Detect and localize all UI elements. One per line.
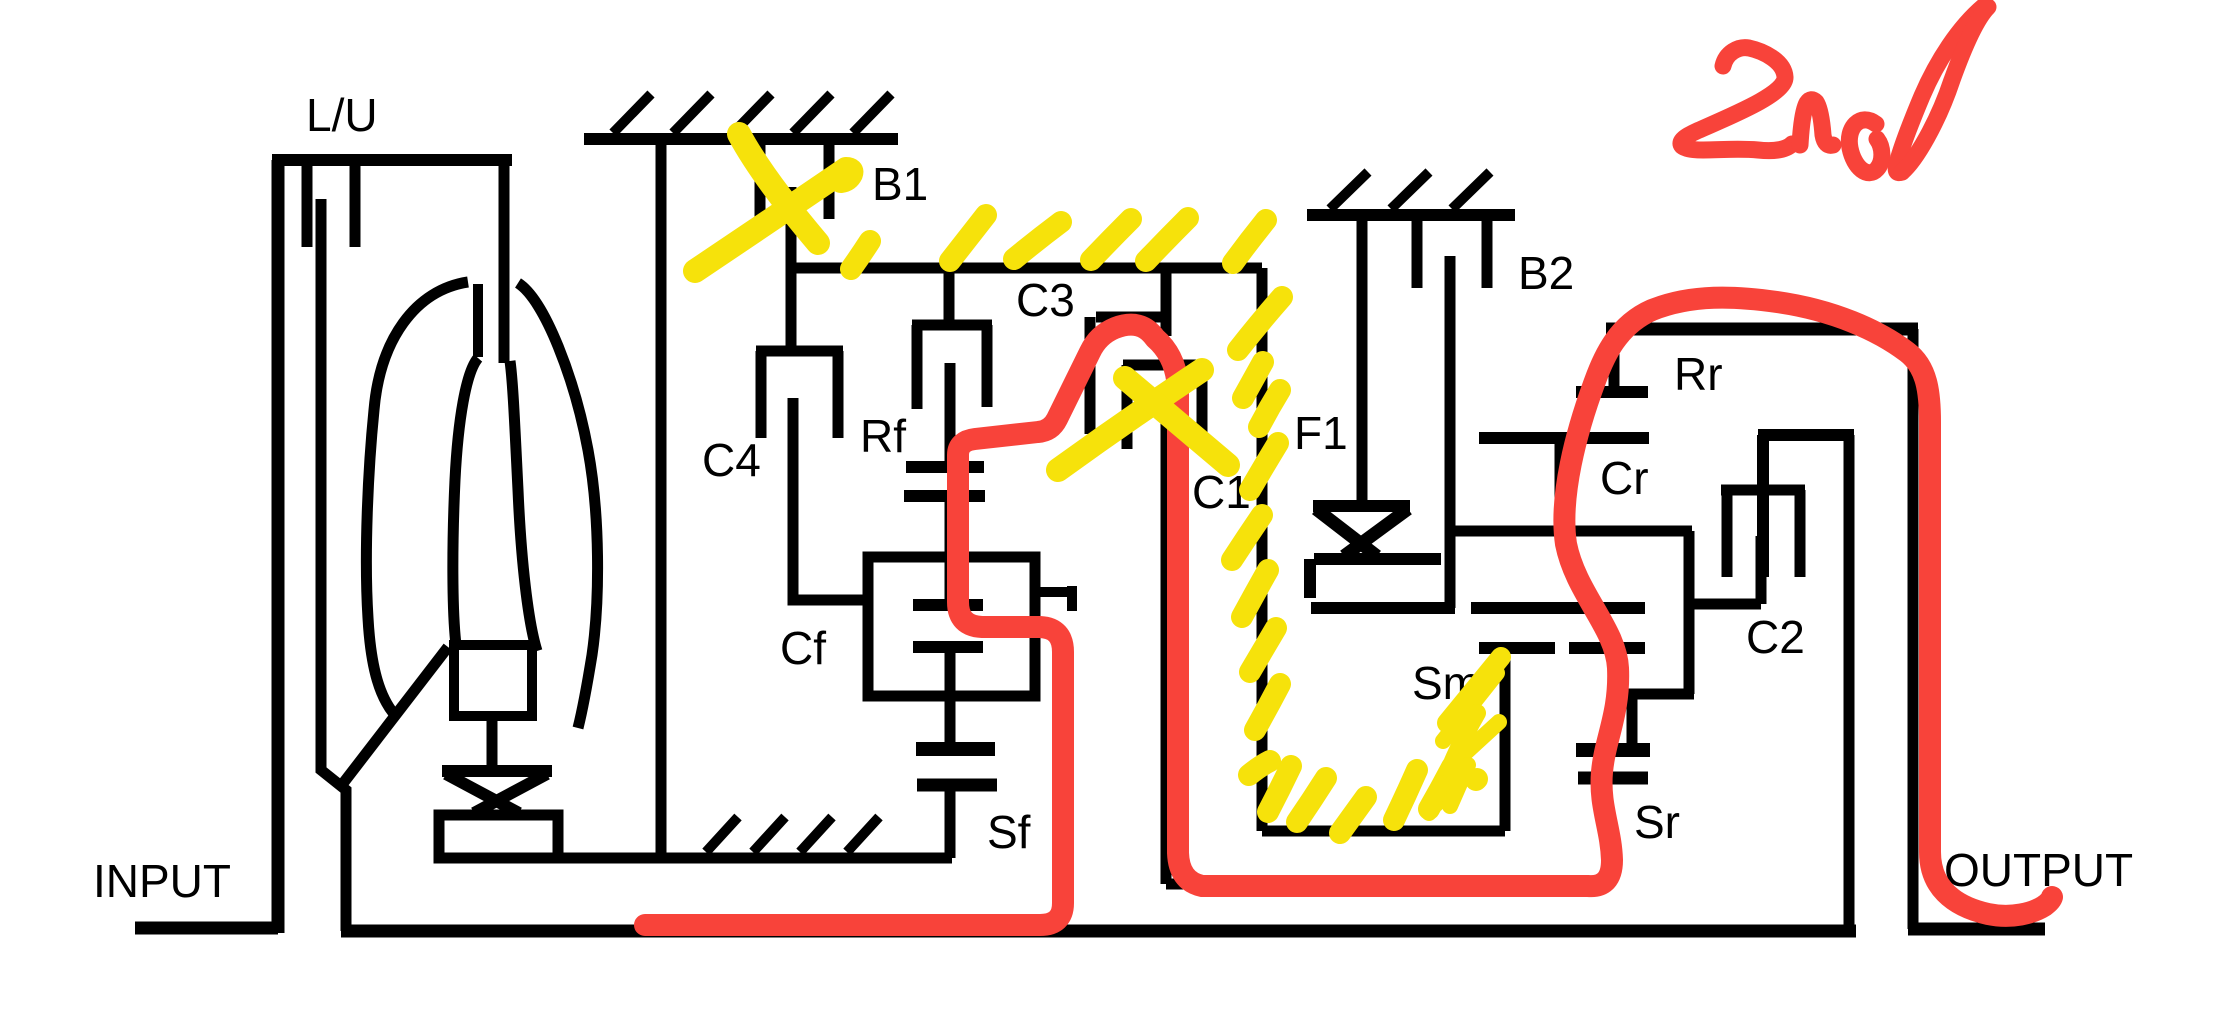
brake B2 hub stem	[1445, 256, 1456, 608]
wire Rf to carrier	[945, 496, 956, 557]
rear box top line	[1606, 323, 1918, 336]
svg-text:OUTPUT: OUTPUT	[1944, 844, 2133, 896]
wire front gearset top line	[786, 263, 1262, 274]
sun gear Sf mesh bar 2	[917, 779, 997, 792]
yellow scribble over Sm 4	[1436, 713, 1477, 803]
yellow dash col 7	[1250, 628, 1276, 672]
yellow dash col 2	[1243, 362, 1263, 398]
clutch C3 drum	[912, 325, 992, 409]
svg-text:C2: C2	[1746, 611, 1805, 663]
svg-text:C3: C3	[1016, 274, 1075, 326]
yellow dash col 4	[1250, 443, 1278, 490]
svg-text:B2: B2	[1518, 247, 1574, 299]
yellow scribble over Sm 3	[1451, 722, 1499, 766]
yellow scribble over Sm 7	[1429, 783, 1441, 813]
yellow dash row 2	[950, 215, 986, 261]
case hatch ticks	[706, 817, 879, 852]
ground B2 hatches	[1330, 172, 1490, 209]
yellow highlighter annotations	[695, 134, 1501, 833]
torus outer right arc	[518, 283, 598, 728]
clutch C4 drum	[756, 351, 843, 438]
clutch C1 stub	[1161, 268, 1172, 336]
wire main bottom line	[341, 925, 1856, 938]
lock-up clutch plate 1	[302, 160, 313, 247]
svg-text:Cr: Cr	[1600, 452, 1649, 504]
svg-text:Rf: Rf	[860, 410, 906, 462]
sun drum bar right	[1569, 642, 1645, 654]
red handwriting 2nd: letter n	[1800, 100, 1833, 146]
yellow scribble over Sm 1	[1447, 657, 1501, 723]
ring gear Rf mesh bar 1	[906, 461, 984, 473]
sun gear Sr mesh bar 1	[1576, 743, 1650, 757]
red marker power-flow trace	[645, 6, 2052, 925]
yellow dash row 3	[1014, 222, 1061, 259]
turbine output stem	[321, 199, 346, 931]
ring gear Rf mesh bar 2	[904, 490, 985, 502]
yellow dash col 1	[1238, 297, 1282, 350]
one-way clutch triangle (converter)	[442, 771, 552, 813]
svg-text:F1: F1	[1294, 407, 1348, 459]
carrier Cf output stub	[1035, 586, 1074, 611]
ring gear Rr mesh bar 2	[1479, 432, 1649, 444]
brake B1 plate 1	[755, 139, 766, 219]
stator stem	[487, 716, 498, 770]
sun drum bar left	[1479, 642, 1555, 654]
red handwriting 2nd: d tall loop down	[1896, 6, 1984, 173]
clutch C2 hub plate	[1694, 536, 1761, 604]
yellow X over B1 stroke 2	[739, 134, 818, 243]
wire OUTPUT line	[1908, 923, 2045, 936]
pinion stems	[945, 557, 956, 749]
yellow dash col 6	[1242, 570, 1268, 617]
ground B2 line	[1307, 209, 1515, 221]
clutch C3 hub plate	[945, 363, 956, 467]
clutch C1 hub plate	[1161, 395, 1172, 884]
sun gear Sr mesh bar 2	[1578, 772, 1648, 785]
svg-text:C4: C4	[702, 434, 761, 486]
front box bottom	[1262, 826, 1505, 837]
wire B2 to carrier Cr	[1450, 526, 1692, 537]
ring gear Rr mesh bar 1	[1576, 386, 1648, 398]
yellow X over C1 stroke 1	[1058, 370, 1202, 470]
brake B2 plate 1	[1412, 220, 1423, 288]
yellow scribble over Sm 5	[1450, 765, 1468, 806]
ring gear Rr stem	[1609, 329, 1620, 392]
red handwriting 2nd: digit 2	[1681, 48, 1792, 151]
sun gear Sr stem upper	[1627, 694, 1638, 750]
yellow dash J 2	[1268, 766, 1291, 812]
stator base rectangle	[439, 815, 558, 858]
red trace main	[645, 298, 2052, 925]
sun gear Sf mesh bar 1	[916, 742, 995, 756]
yellow scribble over Sm 2	[1443, 673, 1497, 741]
yellow X over B1 stroke 1	[695, 169, 851, 271]
yellow dash J 5	[1394, 770, 1417, 820]
torus outer left arc	[366, 282, 468, 714]
sun gear Sr stem lower	[1602, 778, 1613, 884]
wire INPUT line	[135, 160, 278, 933]
yellow dash row 1	[851, 241, 870, 269]
one-way clutch F1 triangle	[1313, 500, 1410, 512]
yellow dash J 4	[1340, 797, 1366, 833]
ground B1 line	[584, 133, 898, 145]
ground B1 hatches	[613, 94, 891, 133]
front box right edge	[1257, 268, 1268, 831]
svg-text:Cf: Cf	[780, 622, 826, 674]
carrier Cr box right edge	[1684, 531, 1695, 694]
ring Rr to carrier stem	[1555, 438, 1566, 531]
svg-text:INPUT: INPUT	[93, 855, 231, 907]
svg-text:B1: B1	[872, 158, 928, 210]
yellow dash J 3	[1297, 778, 1326, 822]
wire case left vertical	[656, 139, 667, 858]
wire output coupling	[1166, 879, 1607, 890]
clutch C4 hub plate	[793, 398, 868, 600]
yellow dash col 5	[1232, 515, 1262, 560]
clutch C1 inner drum	[1123, 365, 1206, 449]
svg-text:Sf: Sf	[987, 806, 1031, 858]
clutch C1 outer drum	[1090, 317, 1166, 434]
yellow dash col 3	[1259, 390, 1280, 427]
carrier Cf pinion bar 1	[913, 599, 983, 611]
stator square	[454, 645, 532, 716]
yellow dash row 6	[1233, 220, 1266, 263]
svg-text:L/U: L/U	[306, 89, 378, 141]
lock-up clutch plate 2	[350, 160, 361, 247]
impeller shell diagonal	[341, 647, 448, 786]
torus inner left arc	[453, 358, 478, 645]
yellow dash row 5	[1146, 218, 1188, 261]
clutch C2 outer drum	[1758, 435, 1854, 577]
sun drum right edge	[1500, 648, 1511, 831]
yellow scribble over Sm 6	[1476, 779, 1477, 780]
red handwriting 2nd: d tall loop up	[1902, 7, 1988, 172]
one-way clutch F1 shaft	[1357, 220, 1368, 502]
output shaft right edge	[1908, 329, 1919, 929]
yellow dash col 8	[1255, 684, 1280, 730]
red handwriting 2nd: d bowl	[1849, 120, 1882, 173]
svg-text:Rr: Rr	[1674, 348, 1723, 400]
yellow dash J 1	[1249, 761, 1270, 775]
brake B1 plate 2	[824, 139, 835, 219]
case ground line under converter	[559, 853, 952, 864]
brake B2 plate 2	[1482, 220, 1493, 288]
sun gear Sf stem	[945, 785, 956, 858]
carrier Cr box bottom	[1623, 689, 1694, 700]
carrier Cf pinion bar 2	[913, 641, 983, 653]
torus inner right arc	[510, 361, 537, 651]
yellow dash row 4	[1091, 219, 1131, 260]
yellow X over C1 stroke 2	[1125, 378, 1228, 465]
svg-text:Sr: Sr	[1634, 796, 1680, 848]
drum mesh bar right	[1471, 602, 1645, 614]
clutch C2 drum leg to case	[1844, 435, 1855, 929]
F1 drum	[1310, 559, 1455, 608]
turbine hub stub	[473, 284, 483, 357]
brake B1 hub stem	[786, 187, 797, 351]
carrier Cf box	[868, 557, 1035, 696]
clutch C2 inner drum	[1721, 490, 1805, 577]
torque converter housing top	[272, 154, 512, 166]
torque converter input shaft	[499, 160, 510, 363]
yellow dash J 6	[1429, 767, 1452, 809]
clutch C3 stub	[944, 268, 955, 325]
